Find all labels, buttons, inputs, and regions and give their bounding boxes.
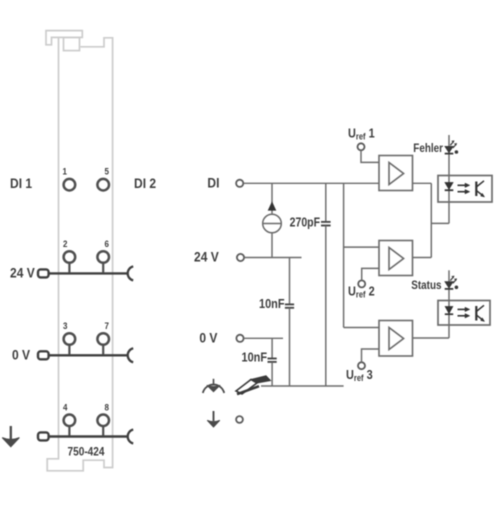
- dot after Fehler symbol: [455, 150, 459, 154]
- svg-text:Status: Status: [411, 280, 441, 293]
- optocoupler 2 LED: [445, 307, 453, 315]
- rail contact symbol (arc with arrow): [203, 379, 224, 393]
- wire 0V line: [244, 337, 283, 339]
- pin 3 stem: [68, 345, 70, 354]
- wire U1 output: [413, 182, 432, 184]
- wire optocoupler 2 vertical: [448, 270, 450, 338]
- svg-text:5: 5: [105, 166, 110, 177]
- terminal Uref2: [358, 280, 365, 287]
- terminal DI: [236, 180, 243, 187]
- svg-text:4: 4: [63, 402, 68, 413]
- current source I1 arrow: [268, 201, 277, 210]
- wire Uref3 to comparator 3: [362, 349, 380, 362]
- wire shield rail: [261, 385, 344, 387]
- wire output join U1 U2: [430, 183, 432, 257]
- wire 10nF lower branch: [289, 308, 291, 386]
- wire 10nF upper branch: [289, 258, 291, 305]
- pin 5: [97, 179, 109, 191]
- terminal 24V: [237, 254, 244, 261]
- earth row clamp terminal: [38, 432, 49, 440]
- svg-text:24 V: 24 V: [10, 264, 35, 280]
- wire DI line: [243, 182, 379, 184]
- capacitor 10nF C1: [285, 304, 294, 307]
- svg-text:1: 1: [63, 166, 68, 177]
- svg-text:0 V: 0 V: [199, 330, 217, 346]
- 0V row open contact arc: [128, 348, 134, 362]
- earth row open contact arc: [128, 430, 134, 444]
- svg-text:7: 7: [105, 320, 110, 331]
- optocoupler 1 LED: [445, 183, 454, 191]
- svg-text:2: 2: [63, 238, 68, 249]
- svg-text:3: 3: [63, 320, 68, 331]
- capacitor 10nF C2: [268, 359, 277, 362]
- functional earth arrow: [207, 411, 220, 427]
- 0V row wire: [49, 354, 128, 356]
- pin 8 stem: [102, 427, 104, 436]
- module body outline: [47, 37, 112, 470]
- wire Uref1 to comparator 1: [361, 150, 379, 162]
- wire U3 output to optocoupler 2: [413, 337, 450, 339]
- svg-text:0 V: 0 V: [12, 346, 30, 362]
- wire 270pF branch upper: [325, 183, 327, 221]
- LED Fehler: [445, 141, 457, 154]
- svg-text:DI: DI: [207, 175, 219, 191]
- svg-text:10nF: 10nF: [242, 350, 267, 365]
- wire 10nF2 lower branch: [271, 362, 273, 386]
- terminal unconnected: [236, 416, 243, 423]
- svg-text:6: 6: [105, 238, 110, 249]
- pin 4: [64, 415, 76, 427]
- pin 8: [97, 415, 109, 427]
- wire Uref2 to comparator 2: [362, 268, 379, 280]
- svg-text:DI 1: DI 1: [10, 175, 32, 191]
- optocoupler 2 coupling arrows: [458, 307, 470, 318]
- current source I1 bottom wire: [271, 233, 273, 258]
- wire bus to comparator 3: [344, 327, 379, 329]
- wire comparator bus: [343, 183, 345, 327]
- svg-text:DI 2: DI 2: [134, 175, 156, 191]
- wire optocoupler 1 vertical: [448, 135, 450, 223]
- capacitor 270pF: [321, 222, 331, 226]
- wire 24V line: [244, 257, 301, 259]
- svg-text:750-424: 750-424: [68, 446, 106, 459]
- optocoupler 1 coupling arrows: [458, 183, 470, 194]
- shield clamp symbol: [236, 376, 271, 394]
- pin 4 stem: [68, 427, 70, 436]
- module housing top hook and bar: [46, 31, 82, 45]
- wire bus to comparator 2: [344, 246, 379, 248]
- pin 6 stem: [102, 263, 104, 272]
- pin 1: [64, 179, 76, 191]
- dot after Status symbol: [455, 286, 459, 290]
- terminal Uref3: [358, 362, 365, 369]
- wire 10nF2 upper branch: [271, 338, 273, 358]
- earth arrow at module: [2, 426, 19, 447]
- svg-text:270pF: 270pF: [290, 217, 320, 230]
- current source I1: [263, 214, 282, 233]
- pin 2 stem: [68, 263, 70, 272]
- current source I1 bar: [263, 223, 282, 225]
- optocoupler 2 phototransistor: [476, 305, 484, 321]
- terminal Uref1: [358, 143, 365, 150]
- 0V clamp terminal: [38, 351, 49, 359]
- earth row wire: [49, 435, 128, 437]
- optocoupler 1 box: [438, 176, 492, 203]
- op-amp U2 (comparator): [379, 241, 413, 276]
- svg-text:10nF: 10nF: [259, 296, 284, 311]
- wire 270pF branch lower: [325, 226, 327, 386]
- LED Status: [445, 276, 457, 289]
- op-amp U3 (comparator): [379, 321, 413, 357]
- pin 6: [97, 251, 109, 263]
- op-amp U1 (comparator): [379, 156, 413, 191]
- svg-text:24 V: 24 V: [194, 248, 219, 264]
- module latch: [64, 37, 80, 50]
- terminal 0V: [236, 335, 243, 342]
- 24V row wire: [49, 272, 128, 274]
- pin 3: [64, 333, 76, 345]
- wire U2 output: [413, 257, 432, 259]
- 24V clamp terminal: [38, 269, 49, 277]
- wire to optocoupler 1: [431, 222, 449, 224]
- current source I1 top wire: [271, 183, 273, 214]
- optocoupler 2 box: [438, 301, 490, 326]
- optocoupler 1 phototransistor: [476, 181, 484, 197]
- svg-text:8: 8: [105, 402, 110, 413]
- svg-text:Fehler: Fehler: [413, 142, 443, 155]
- pin 7 stem: [102, 345, 104, 354]
- pin 2: [64, 251, 76, 263]
- 24V row open contact arc: [128, 266, 134, 280]
- pin 7: [97, 333, 109, 345]
